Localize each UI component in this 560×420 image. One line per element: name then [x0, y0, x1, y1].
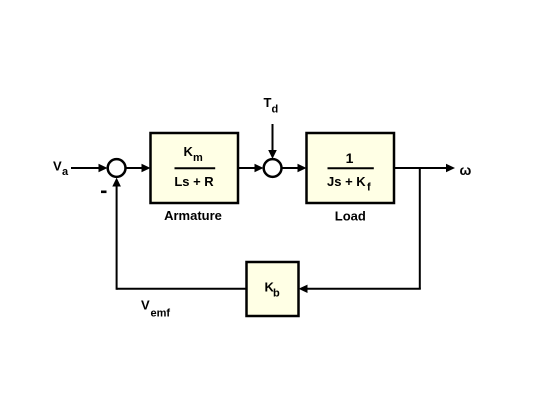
- svg-text:Js + K: Js + K: [327, 174, 366, 189]
- svg-text:f: f: [367, 182, 371, 194]
- svg-text:m: m: [193, 152, 203, 164]
- svg-text:T: T: [264, 95, 272, 110]
- svg-text:a: a: [62, 166, 69, 178]
- svg-text:d: d: [272, 104, 279, 116]
- svg-text:V: V: [53, 159, 62, 174]
- svg-text:Ls + R: Ls + R: [174, 174, 214, 189]
- svg-text:V: V: [141, 298, 150, 313]
- svg-text:b: b: [273, 288, 280, 300]
- svg-text:ω: ω: [460, 162, 472, 178]
- svg-text:Load: Load: [335, 208, 366, 223]
- svg-text:K: K: [184, 144, 194, 159]
- svg-text:1: 1: [346, 150, 354, 166]
- svg-text:Armature: Armature: [164, 208, 222, 223]
- svg-text:emf: emf: [151, 308, 171, 320]
